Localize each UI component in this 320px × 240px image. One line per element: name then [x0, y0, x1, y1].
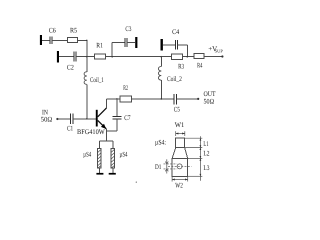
capacitor C7 [112, 117, 121, 119]
stub layout: pad section (W2 x L3) [172, 158, 188, 176]
svg-text:Coil_2: Coil_2 [167, 75, 182, 83]
svg-text:L2: L2 [203, 150, 209, 158]
resistor R4 [194, 54, 204, 59]
svg-text:BFG410W: BFG410W [77, 128, 105, 136]
svg-text:C2: C2 [67, 64, 74, 72]
wire [77, 39, 87, 41]
wire [42, 39, 50, 41]
wire (C7 bottom lead) [116, 119, 118, 131]
wire [86, 40, 88, 56]
wire [112, 42, 125, 44]
ground bar (right stub) [109, 173, 116, 175]
svg-text:D1: D1 [155, 163, 162, 171]
svg-text:C6: C6 [49, 27, 57, 35]
wire [73, 118, 96, 120]
inductor Coil_2 [158, 66, 161, 80]
resistor R1 [95, 54, 106, 59]
svg-text:W2: W2 [175, 182, 183, 190]
stray dot mark [136, 182, 137, 183]
svg-text:C7: C7 [124, 114, 131, 122]
svg-text:R2: R2 [123, 84, 128, 92]
svg-text:50Ω: 50Ω [204, 98, 215, 106]
dimension W2 [172, 177, 188, 182]
svg-text:R4: R4 [197, 61, 203, 69]
svg-text:C3: C3 [125, 25, 131, 33]
wire [111, 43, 113, 57]
wire [186, 45, 188, 57]
node junction C7 tap [116, 98, 118, 100]
transistor Q1 BFG410W [96, 108, 107, 129]
centerline through via [168, 165, 192, 167]
via hole D1 [177, 164, 182, 169]
ground bar (C4 branch) [161, 39, 163, 51]
wire [112, 141, 114, 149]
wire [59, 56, 74, 58]
wire (C7 top lead) [116, 99, 118, 117]
svg-text:µS4:: µS4: [155, 138, 166, 146]
resistor R3 [172, 54, 183, 60]
node OUT terminal [197, 98, 199, 100]
node junction Coil_2 tap [161, 56, 163, 58]
ground bar (top-left, C6 branch) [40, 35, 42, 45]
microstrip stub uS4 (right) [111, 149, 115, 169]
wire [106, 130, 117, 132]
wire [204, 56, 222, 58]
inductor Coil_1 [84, 72, 87, 85]
stub layout: top narrow section (W1 x L1) [176, 138, 185, 147]
wire [112, 168, 114, 173]
capacitor C2 [74, 52, 76, 62]
ground bar (C2 branch) [57, 51, 59, 63]
svg-text:R5: R5 [70, 27, 78, 35]
wire [160, 57, 162, 67]
wire [176, 98, 198, 100]
node junction R5 corner [86, 40, 87, 41]
capacitor C5 [174, 94, 176, 105]
node junction Coil_1/base [86, 118, 87, 119]
node +VSUP terminal [221, 55, 223, 57]
ground bar (C3 branch) [135, 37, 137, 48]
stub layout: taper section (L2) [172, 148, 188, 159]
wire [178, 44, 188, 46]
svg-text:50Ω: 50Ω [41, 116, 52, 124]
wire [99, 141, 101, 149]
svg-text:SUP: SUP [215, 48, 224, 53]
wire (collector up) [105, 99, 107, 108]
wire [76, 56, 94, 58]
wire (emitter down) [105, 129, 107, 141]
wire [127, 42, 135, 44]
svg-text:C1: C1 [67, 124, 74, 132]
wire (stub splitter) [100, 140, 113, 142]
wire [52, 39, 67, 41]
node junction C4 tap [187, 56, 189, 58]
node junction C3 tap [111, 56, 113, 58]
svg-text:C4: C4 [172, 28, 180, 36]
microstrip stub uS4 (left) [98, 149, 102, 169]
svg-text:R3: R3 [178, 63, 184, 71]
wire [57, 118, 70, 120]
ground bar (left stub) [96, 173, 103, 175]
node IN terminal [56, 118, 58, 120]
dimension chain L1 L2 L3 [185, 136, 203, 181]
wire [163, 44, 175, 46]
node junction Coil_2/output [161, 98, 163, 100]
svg-text:W1: W1 [175, 121, 185, 129]
wire [183, 56, 195, 58]
wire (output row collector to R2) [106, 98, 120, 100]
resistor R2 [120, 96, 131, 102]
svg-text:µS4: µS4 [120, 150, 128, 158]
wire (Coil_1 branch down from R5/C2 node) [86, 57, 88, 72]
resistor R5 [68, 38, 78, 43]
svg-text:L1: L1 [203, 140, 209, 148]
wire [86, 84, 88, 118]
node junction R5/C2 [86, 56, 88, 58]
capacitor C1 [71, 114, 74, 125]
wire [99, 168, 101, 173]
wire [160, 80, 162, 99]
dimension W1 [176, 131, 185, 136]
dimension D1 [164, 159, 178, 173]
capacitor C4 [175, 40, 177, 50]
wire (supply rail R1 to R3) [105, 56, 171, 58]
svg-text:L3: L3 [203, 164, 209, 172]
wire [132, 98, 175, 100]
svg-text:Coil_1: Coil_1 [90, 76, 104, 84]
svg-text:R1: R1 [96, 41, 103, 49]
svg-text:µS4: µS4 [83, 150, 91, 158]
svg-text:C5: C5 [174, 106, 180, 114]
capacitor C3 [125, 38, 127, 47]
capacitor C6 [50, 37, 52, 45]
